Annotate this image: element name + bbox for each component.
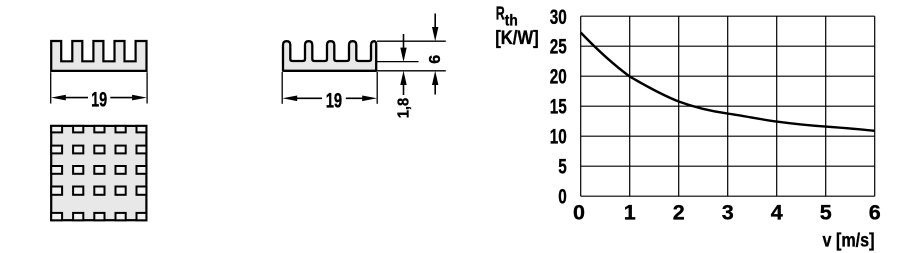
extension line base-top level (middle) <box>377 61 419 63</box>
svg-text:1: 1 <box>624 201 636 225</box>
svg-text:25: 25 <box>550 35 567 59</box>
dimension 19 right arrow (middle) <box>362 96 377 102</box>
Rth curve <box>581 33 875 131</box>
heatsink top view outline <box>51 126 146 220</box>
dimension 19 left arrow (middle) <box>282 96 297 102</box>
svg-text:th: th <box>505 13 518 30</box>
dimension 19 left arrow <box>51 95 66 101</box>
dimension 1,8 down arrow <box>403 34 405 48</box>
svg-text:4: 4 <box>771 201 783 225</box>
extension line left of dim 19 (left drawing) <box>50 72 52 103</box>
svg-text:5: 5 <box>558 155 567 179</box>
svg-text:10: 10 <box>550 125 567 149</box>
svg-text:20: 20 <box>550 65 567 89</box>
svg-text:0: 0 <box>558 185 567 209</box>
svg-text:15: 15 <box>550 95 567 119</box>
dimension 6 down arrow <box>434 14 436 28</box>
svg-text:2: 2 <box>673 201 685 225</box>
heatsink top view slot grid <box>51 126 146 220</box>
svg-text:19: 19 <box>326 88 342 112</box>
extension line right of dim 19 (middle drawing) <box>376 72 378 104</box>
chart grid <box>581 16 875 196</box>
heatsink profile view (middle) with rounded fins <box>283 41 376 71</box>
svg-text:[K/W]: [K/W] <box>495 28 539 49</box>
extension line fin-top level (middle) <box>377 40 446 42</box>
svg-text:R: R <box>496 3 505 23</box>
svg-text:3: 3 <box>722 201 734 225</box>
dimension 19 right arrow <box>132 95 147 101</box>
dimension 6 up arrow <box>432 71 438 85</box>
heatsink side view (left) <box>51 41 146 71</box>
extension line base-bottom level (middle) <box>377 70 446 72</box>
svg-text:6: 6 <box>427 55 444 64</box>
x axis labels <box>573 201 881 225</box>
svg-text:6: 6 <box>869 201 881 225</box>
y axis labels <box>550 5 567 209</box>
svg-text:1,8: 1,8 <box>396 98 413 119</box>
extension line left of dim 19 (middle drawing) <box>281 72 283 104</box>
dimension 1,8 up arrow <box>400 71 406 85</box>
svg-text:0: 0 <box>573 201 585 225</box>
svg-text:19: 19 <box>91 88 107 112</box>
svg-text:5: 5 <box>820 201 832 225</box>
svg-text:v [m/s]: v [m/s] <box>823 231 875 252</box>
extension line right of dim 19 (left drawing) <box>146 72 148 103</box>
svg-text:30: 30 <box>550 5 567 29</box>
